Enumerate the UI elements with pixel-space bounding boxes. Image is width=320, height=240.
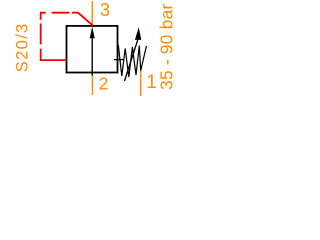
svg-text:1: 1 bbox=[146, 72, 157, 93]
svg-text:S20/3: S20/3 bbox=[12, 22, 31, 72]
svg-text:3: 3 bbox=[100, 0, 110, 20]
svg-text:35 - 90 bar: 35 - 90 bar bbox=[157, 4, 177, 90]
svg-text:2: 2 bbox=[99, 73, 109, 93]
